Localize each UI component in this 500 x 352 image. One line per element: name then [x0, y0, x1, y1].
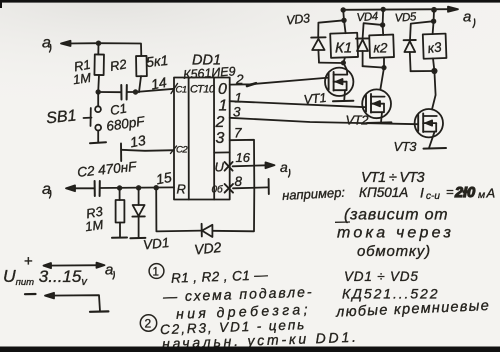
overline on toka	[335, 221, 350, 223]
relay K2 group: junction dots	[381, 7, 386, 12]
svg-text:1М: 1М	[72, 70, 92, 87]
svg-text:1: 1	[235, 91, 243, 106]
svg-text:=: =	[446, 184, 454, 199]
note 2 circle outline	[140, 315, 156, 331]
wire C1 row	[98, 89, 174, 92]
diode VD4 branch	[356, 23, 384, 67]
svg-text:КП501А: КП501А	[359, 185, 408, 200]
pin 16 wire to a	[233, 162, 275, 168]
node junction R2 bottom	[133, 89, 138, 94]
svg-text:1: 1	[219, 98, 228, 115]
svg-text:К1: К1	[335, 40, 352, 57]
bottom border bar	[0, 347, 500, 352]
capacitor C1	[121, 85, 127, 100]
a label tails	[50, 19, 475, 279]
svg-text:2Ɨ0: 2Ɨ0	[454, 185, 475, 201]
relay K3 group: junction dots	[431, 7, 437, 13]
node junction R1 top	[96, 41, 101, 46]
transistor VT1	[325, 63, 353, 102]
svg-text:VD3: VD3	[286, 11, 311, 27]
svg-text:7: 7	[234, 126, 242, 141]
paper shading top	[0, 0, 500, 120]
diode VD1	[130, 188, 145, 239]
svg-text:VD2: VD2	[193, 239, 222, 258]
relay K3	[423, 21, 447, 71]
node K1 bottom	[341, 60, 346, 65]
svg-text:8: 8	[235, 174, 243, 189]
svg-text:2: 2	[235, 72, 244, 87]
node K2 bottom	[381, 65, 386, 70]
svg-text:3: 3	[216, 130, 225, 147]
capacitor C2	[95, 181, 100, 196]
resistor R3	[112, 188, 127, 238]
svg-text:R: R	[177, 182, 186, 197]
node junction C1 left	[96, 89, 101, 94]
svg-text:VD5: VD5	[394, 11, 417, 25]
wire output 2 to VT3 gate	[230, 118, 417, 124]
svg-text:VT3: VT3	[394, 139, 418, 154]
node junction VD1 top	[136, 185, 141, 190]
diode VD2	[202, 224, 213, 237]
svg-text:U: U	[215, 160, 225, 175]
svg-text:1: 1	[153, 267, 159, 279]
wire output 0 to VT1 gate	[230, 78, 329, 86]
IC DD1 body	[174, 78, 230, 200]
wire row a2 (reset node row)	[66, 185, 174, 191]
node junction VD2 return	[154, 185, 159, 190]
top rail right	[343, 7, 458, 12]
svg-text:2: 2	[215, 114, 225, 131]
relay K2	[369, 25, 394, 68]
svg-text:1М: 1М	[84, 217, 104, 234]
svg-text:А: А	[486, 186, 496, 201]
svg-text:I: I	[420, 185, 424, 201]
svg-text:с-и: с-и	[426, 191, 440, 202]
svg-text:тока через: тока через	[337, 225, 454, 242]
pin 13 wire with bar	[121, 144, 174, 162]
svg-text:а: а	[105, 262, 113, 279]
svg-text:2: 2	[145, 317, 152, 331]
wire top rail left	[99, 43, 142, 56]
svg-text:VT2: VT2	[346, 113, 370, 128]
relay K1	[330, 20, 358, 63]
svg-text:а: а	[42, 35, 51, 52]
Upit double arrow	[44, 263, 105, 269]
transistor VT3	[415, 71, 446, 149]
resistor R2	[136, 56, 147, 92]
svg-text:3: 3	[233, 105, 241, 120]
svg-text:а: а	[280, 159, 288, 175]
relay K1 group: junction dots	[341, 7, 346, 12]
node K3 bottom	[431, 68, 437, 74]
svg-text:обмотку): обмотку)	[357, 243, 431, 260]
svg-text:SB1: SB1	[45, 107, 77, 127]
diode VD3 branch	[311, 20, 344, 63]
svg-text:13: 13	[129, 132, 147, 150]
svg-text:+: +	[24, 253, 33, 270]
svg-text:к2: к2	[374, 41, 388, 56]
wire output 1 to VT2 gate	[230, 101, 366, 107]
pin 16 cross	[225, 162, 233, 171]
svg-text:5к1: 5к1	[145, 52, 169, 70]
svg-text:0б: 0б	[212, 184, 224, 196]
svg-text:VT1 ÷ VT3: VT1 ÷ VT3	[361, 170, 425, 186]
svg-text:VD1: VD1	[142, 235, 170, 253]
pin 8 cross	[225, 184, 233, 193]
svg-text:VT1: VT1	[303, 90, 327, 107]
wire output 3 reset loop	[156, 140, 254, 232]
svg-text:15: 15	[155, 169, 173, 187]
svg-text:0: 0	[218, 81, 227, 98]
switch SB1	[84, 92, 107, 143]
Upit minus arrow to ground	[45, 293, 108, 312]
svg-text:а: а	[42, 181, 51, 198]
pin 8 wire to ground bar	[233, 179, 269, 194]
note 1 circle outline	[149, 264, 164, 279]
svg-text:R2: R2	[109, 56, 129, 74]
svg-text:C2: C2	[176, 145, 188, 156]
diode VD5 branch	[404, 21, 434, 71]
transistor VT2	[362, 68, 391, 123]
pin 14 slash	[171, 84, 178, 94]
svg-text:(зависит от: (зависит от	[344, 207, 448, 224]
svg-text:VD4: VD4	[356, 11, 378, 24]
svg-text:VD1 ÷ VD5: VD1 ÷ VD5	[344, 269, 419, 284]
svg-text:C1: C1	[176, 85, 187, 96]
svg-text:к3: к3	[427, 39, 443, 56]
svg-text:м: м	[478, 189, 485, 201]
node a (top left supply node)	[61, 41, 99, 46]
svg-text:КД521...522: КД521...522	[342, 286, 439, 302]
pin 13 slash	[171, 146, 177, 154]
svg-text:16: 16	[236, 150, 251, 165]
svg-text:а: а	[463, 9, 471, 26]
resistor R1	[94, 43, 104, 92]
top border bar	[0, 0, 500, 3]
svg-text:СТ10: СТ10	[190, 84, 216, 96]
svg-text:14: 14	[150, 74, 168, 92]
minus sign	[25, 293, 36, 295]
node junction R3 top	[117, 185, 122, 190]
